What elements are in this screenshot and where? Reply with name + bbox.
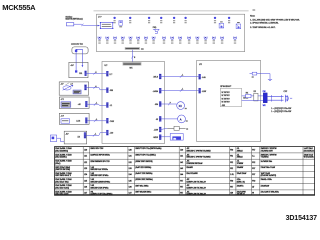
- svg-text:XTuW XWu-? XuW: XTuW XWu-? XuW: [261, 167, 276, 169]
- svg-text:L21: L21: [84, 156, 87, 158]
- svg-text:XWXU’T XPU TXu (XWXL): XWXU’T XPU TXu (XWXL): [135, 155, 156, 157]
- channel LED CH1: [98, 37, 101, 44]
- channel LED CH4: [121, 37, 124, 44]
- svg-text:W (TXuXXW): W (TXuXXW): [304, 157, 314, 159]
- svg-text:3D154137: 3D154137: [286, 215, 318, 222]
- test point TP8: [228, 17, 230, 24]
- svg-text:AT: AT: [252, 185, 254, 188]
- svg-text:XuTWXW XWu: XuTWXW XWu: [261, 161, 273, 163]
- sensor C3 box: [59, 113, 89, 124]
- motor M1: [177, 102, 185, 110]
- wire U2 to M1: [161, 103, 176, 105]
- pin C3 out: [85, 118, 87, 124]
- table row 1: [55, 148, 315, 152]
- svg-text:-C?: -C?: [60, 84, 63, 86]
- svg-text:W XW’W?: W XW’W?: [222, 95, 230, 97]
- svg-text:2. XPG12 WRGUM. 4-XWGUM.: 2. XPG12 WRGUM. 4-XWGUM.: [250, 23, 279, 25]
- svg-text:xxx: xxx: [141, 49, 144, 51]
- table row 3: [55, 161, 272, 165]
- PLC rack U1: [97, 14, 245, 51]
- pin U2 right 1: [159, 74, 161, 79]
- fuse F2: [219, 21, 224, 28]
- pin U2 right 4: [159, 116, 161, 121]
- pin U2 left 3: [106, 103, 108, 108]
- sensor C2 box: [59, 97, 89, 108]
- svg-text:L36: L36: [129, 186, 132, 188]
- device A1 box: [64, 131, 87, 144]
- svg-text:L33: L33: [129, 168, 132, 170]
- resistor R3: [252, 72, 257, 75]
- wire U2 to M2: [161, 118, 177, 120]
- pin U2 right 2: [159, 88, 161, 93]
- channel LED CH9: [163, 37, 166, 44]
- transducer B2 (highlighted): [61, 102, 71, 107]
- svg-text:E ?: E ?: [110, 74, 113, 76]
- pin J-P out: [85, 71, 87, 76]
- svg-text:XW: XW: [230, 193, 233, 195]
- svg-text:XWuW, 4 XWu: XWuW, 4 XWu: [261, 179, 272, 181]
- svg-text:(XXx XxXu xxXX): (XXx XxXu xxXX): [55, 194, 69, 196]
- svg-text:L44: L44: [180, 174, 183, 176]
- svg-text:(XuW’ XXX XWXWu): (XuW’ XXX XWXWu): [135, 167, 151, 169]
- wire connector to J-P (right): [76, 49, 82, 65]
- svg-text:-L: -L: [96, 103, 98, 105]
- test point TP6: [184, 17, 186, 24]
- channel LED CH12: [188, 37, 191, 44]
- pin C1 out: [85, 85, 87, 90]
- funnel symbol FW: [153, 27, 159, 33]
- svg-text:L26: L26: [84, 186, 87, 188]
- svg-text:-L30: -L30: [110, 133, 114, 135]
- svg-text:XX XW XT: XX XW XT: [237, 194, 245, 196]
- channel LED CH10: [171, 37, 174, 44]
- svg-text:XTuXWXX XWT: XTuXWXX XWT: [261, 150, 273, 152]
- svg-text:-W1.B: -W1.B: [153, 77, 159, 79]
- svg-text:XXuX XXuW: XXuX XXuW: [237, 173, 247, 175]
- label block C1 (highlighted): [73, 90, 81, 94]
- wire B4 to A1: [57, 138, 65, 141]
- svg-text:L35: L35: [129, 180, 132, 182]
- svg-text:L42: L42: [180, 162, 183, 164]
- svg-text:-L?: -L?: [70, 83, 73, 85]
- svg-text:F12: F12: [230, 162, 233, 164]
- svg-text:XaWPXXX WPUW XWXu: XaWPXXX WPUW XWXu: [90, 155, 109, 157]
- svg-text:-L: -L: [182, 75, 184, 77]
- channel LED CH7: [144, 37, 147, 44]
- module A1 (selected): [100, 22, 114, 29]
- pin U2 left 1: [106, 71, 108, 76]
- svg-text:+W: +W: [78, 104, 81, 106]
- channel LED CH2: [106, 37, 109, 44]
- ground: [268, 78, 272, 80]
- svg-text:XXuWXuW: XXuWXuW: [261, 185, 270, 187]
- test point TP7: [214, 17, 216, 24]
- svg-text:XWXUXP-T XPWTW TTuXWXX: XWXUXP-T XPWTW TTuXWXX: [186, 157, 211, 159]
- pin U2 left 4: [106, 118, 108, 123]
- table row 4: [55, 167, 275, 171]
- svg-text:1. XXL-XW (AW) GXU GRW ?P?GW 4: 1. XXL-XW (AW) GXU GRW ?P?GW 4-XW II WR.…: [250, 19, 300, 22]
- svg-text:Note:: Note:: [250, 15, 255, 18]
- connector box: [72, 47, 88, 54]
- channel LED CH16: [221, 37, 224, 44]
- controller U3: [197, 60, 261, 141]
- indicator UM (highlighted): [161, 136, 170, 138]
- svg-text:-L: -L: [182, 89, 184, 91]
- svg-text:1-L: 1-L: [252, 156, 255, 158]
- svg-text:XWT WXuXW XWXu: XWT WXuXW XWXu: [135, 192, 151, 194]
- svg-text:F10: F10: [230, 149, 233, 151]
- wire connector to J-P (left): [75, 49, 77, 70]
- wire net S: [131, 50, 133, 63]
- node 301: [75, 70, 77, 72]
- svg-text:3. ?1WP WRGUM. 4-1.GU?.: 3. ?1WP WRGUM. 4-1.GU?.: [250, 27, 276, 29]
- test point TP3: [148, 17, 150, 24]
- svg-text:XWXU’T XPU TXu (XWTW XaWu): XWXU’T XPU TXu (XWTW XaWu): [135, 148, 161, 150]
- svg-text:XWP XWXU GPxT X: XWP XWXU GPxT X: [55, 175, 72, 177]
- svg-text:1-4XT XXuX: 1-4XT XXuX: [304, 148, 314, 150]
- svg-text:XXu XuW XT XWu-WXu: XXu XuW XT XWu-WXu: [261, 192, 279, 194]
- svg-text:F17: F17: [252, 149, 255, 151]
- channel LED CH14: [204, 37, 207, 44]
- wire U2 to U3 (2): [161, 90, 198, 92]
- svg-text:F12: F12: [252, 162, 255, 164]
- svg-text:L24: L24: [84, 174, 87, 176]
- wire U2 to U3 (1): [161, 76, 198, 78]
- svg-text:xx: xx: [186, 121, 188, 123]
- pin C2 out: [85, 101, 87, 107]
- svg-text:-L: -L: [95, 86, 97, 88]
- svg-text:-L: -L: [95, 134, 97, 136]
- svg-text:-W: -W: [156, 119, 159, 121]
- svg-text:XWXUXP-XWXW XPWXu: XWXUXP-XWXW XPWXu: [90, 181, 110, 183]
- svg-text:(XWPXX XW XXW): (XWPXX XW XXW): [55, 169, 70, 171]
- svg-text:F11: F11: [230, 156, 233, 158]
- svg-text:W XW’W?: W XW’W?: [222, 98, 230, 100]
- svg-text:F10: F10: [252, 180, 255, 182]
- svg-text:1 ~ (2X)’(1X)? P/Xa XW: 1 ~ (2X)’(1X)? P/Xa XW: [271, 111, 291, 113]
- motor M2: [178, 115, 186, 123]
- svg-text:-W1W: -W1W: [153, 137, 158, 139]
- svg-text:1-XL: 1-XL: [230, 174, 234, 176]
- svg-text:XuWXP?-XW TX XWu-X?: XuWXP?-XW TX XWu-X?: [186, 187, 206, 189]
- wire J-P to U2: [87, 72, 107, 74]
- svg-text:(XTuXXWuXX: (XTuXXWuXX: [304, 150, 315, 152]
- svg-text:XuWXP?-XW TX XWu-X?: XuWXP?-XW TX XWu-X?: [186, 194, 206, 196]
- svg-text:xx: xx: [185, 108, 187, 110]
- pin U2 right 6: [159, 135, 161, 140]
- wire K1 to U1: [74, 24, 100, 25]
- svg-text:(XuW-T XXX XWXWu): (XuW-T XXX XWXWu): [135, 173, 152, 175]
- svg-text:(XXW-X XXX XWXWu): (XXW-X XXX XWXWu): [135, 179, 153, 181]
- wire R2 to D1: [251, 95, 254, 97]
- table row 6: [55, 179, 272, 183]
- svg-text:L40: L40: [180, 149, 183, 151]
- svg-text:XWXuX: XWXuX: [237, 150, 244, 152]
- svg-text:XWXUXP-XuP XPWXu: XWXUXP-XuP XPWXu: [90, 169, 107, 171]
- svg-text:XX: XX: [179, 105, 183, 108]
- svg-text:A: A: [180, 117, 182, 121]
- contact S1: [161, 128, 167, 129]
- svg-text:F10: F10: [230, 180, 233, 182]
- svg-text:L41: L41: [180, 156, 183, 158]
- fuse F3: [236, 22, 241, 29]
- svg-text:-L: -L: [95, 72, 97, 74]
- svg-text:W XW’W?: W XW’W?: [222, 102, 230, 104]
- wire X1 to R2: [242, 95, 246, 97]
- svg-text:A-33: A-33: [76, 120, 80, 123]
- channel LED CH6: [137, 37, 140, 44]
- svg-text:(XXx XXxXWXX): (XXx XXxXWXX): [55, 150, 68, 152]
- svg-text:(XWW XXW’ XWXPW): (XWW XXW’ XWXPW): [135, 161, 153, 163]
- channel LED CH11: [179, 37, 182, 44]
- pin U3 left 1: [199, 74, 201, 79]
- sensor C1 box: [59, 82, 88, 95]
- svg-text:UM: UM: [173, 138, 176, 140]
- pin U3 left 2: [199, 88, 201, 93]
- svg-text:xx: xx: [186, 129, 188, 131]
- test point TP1: [113, 17, 115, 24]
- svg-text:F17: F17: [180, 180, 183, 182]
- svg-text:(XXxL): (XXxL): [55, 163, 61, 165]
- svg-text:TTuXWXX: TTuXWXX: [261, 157, 270, 159]
- channel LED CH13: [196, 37, 199, 44]
- svg-text:x: x: [170, 102, 171, 104]
- sensor B4 (external): [50, 135, 56, 142]
- svg-text:(XWX 4 X): (XWX 4 X): [237, 181, 245, 183]
- pin U2 right 3: [159, 102, 161, 107]
- pin U2 left 5: [106, 130, 108, 135]
- channel LED CH5: [129, 37, 132, 44]
- table row 5: [55, 173, 276, 177]
- wire C2 to U2: [87, 104, 106, 105]
- wire R3 to ground: [250, 74, 271, 80]
- transducer B3: [61, 119, 70, 123]
- svg-text:F17: F17: [252, 174, 255, 176]
- wire C1 to U2: [87, 88, 107, 90]
- svg-text:XuWXP?-XW TX XWu-X?: XuWXP?-XW TX XWu-X?: [186, 181, 206, 183]
- pin U2 right 5: [159, 127, 161, 132]
- svg-text:-T4W: -T4W: [110, 121, 115, 123]
- variable transducer B1: [63, 86, 71, 90]
- svg-text:(XTuXUW XuXWTX): (XTuXUW XuXWTX): [261, 175, 277, 177]
- relay K1 contact: [66, 23, 73, 26]
- svg-text:L27: L27: [84, 193, 87, 195]
- svg-text:XWT WXu XWXu: XWT WXu XWXu: [135, 185, 148, 187]
- svg-text:-W4: -W4: [155, 104, 158, 106]
- channel LED CH15: [212, 37, 215, 44]
- node P: [75, 50, 77, 52]
- cable: [267, 95, 283, 97]
- svg-text:L43: L43: [180, 168, 183, 170]
- svg-text:L23: L23: [84, 168, 87, 170]
- svg-text:XX XX: XX XX: [243, 98, 249, 100]
- net label X10 (highlighted): [125, 47, 140, 50]
- svg-text:-L5W: -L5W: [202, 91, 207, 93]
- svg-text:-L4WA: -L4WA: [153, 90, 159, 93]
- channel LED CH3: [114, 37, 117, 44]
- fuse F1: [119, 21, 123, 28]
- svg-text:(XXx XXxXWL): (XXx XXxXWL): [55, 157, 67, 159]
- svg-text:FW: FW: [263, 91, 266, 93]
- wire D1 to FW: [258, 95, 263, 97]
- wire X1 lower to FW: [242, 100, 264, 102]
- wire A1 to U2: [86, 133, 106, 136]
- pin U2 left 2: [106, 88, 108, 93]
- svg-text:XWXUXP-XWT XPWXu: XWXUXP-XWT XPWXu: [90, 175, 108, 177]
- svg-text:-L: -L: [96, 119, 98, 121]
- svg-text:xxx: xxx: [253, 9, 256, 11]
- controller U2: [102, 62, 165, 144]
- svg-text:L20: L20: [84, 149, 87, 151]
- svg-text:L34: L34: [129, 174, 132, 176]
- svg-text:XXuWW: XXuWW: [237, 167, 244, 169]
- test point TP2: [129, 17, 131, 24]
- svg-text:XXuWTu: XXuWTu: [237, 185, 244, 187]
- svg-text:-L1: -L1: [110, 105, 113, 107]
- svg-text:W XW’W?: W XW’W?: [222, 92, 230, 94]
- pin A1 out: [84, 133, 86, 139]
- svg-text:XWXuX: XWXuX: [237, 157, 244, 159]
- svg-text:1 ~ (2X)’(1X)? P/Xa XW: 1 ~ (2X)’(1X)? P/Xa XW: [271, 108, 291, 110]
- test point TP4: [160, 17, 162, 24]
- svg-text:L25: L25: [84, 180, 87, 182]
- svg-text:L37: L37: [129, 193, 132, 195]
- svg-text:XWXUXP-TXW XPWXu: XWXUXP-TXW XPWXu: [90, 187, 108, 189]
- svg-text:XPW-XRUV*: XPW-XRUV*: [220, 86, 231, 88]
- test point TP5: [173, 17, 175, 24]
- svg-text:XXuX XXuWW: XXuX XXuWW: [186, 173, 198, 175]
- channel LED CH17: [234, 37, 237, 44]
- svg-text:XaWXPU T XPTTXu-XPWXu: XaWXPU T XPTTXu-XPWXu: [90, 194, 112, 196]
- svg-text:L31: L31: [129, 156, 132, 158]
- svg-text:xx: xx: [252, 77, 254, 79]
- svg-text:F17: F17: [252, 168, 255, 170]
- svg-text:L32: L32: [129, 162, 132, 164]
- svg-text:F17: F17: [180, 186, 183, 188]
- svg-text:XXW-XWRWW XPU TXU: XXW-XWRWW XPU TXU: [90, 161, 110, 163]
- table row 2: [55, 154, 314, 158]
- wire C3 to U2: [87, 120, 106, 122]
- svg-text:XTWXWW XWTXuW: XTWXWW XWTXuW: [186, 163, 202, 165]
- net label on U2 (highlighted): [123, 62, 142, 65]
- wire top bus: [94, 10, 249, 12]
- svg-text:MARTE (NRT#4xxx): MARTE (NRT#4xxx): [66, 18, 84, 21]
- svg-text:(XXx XXxU XaXX): (XXx XXxU XaXX): [55, 187, 69, 189]
- svg-text:XTWXW: XTWXW: [237, 163, 244, 165]
- svg-text:F17: F17: [180, 193, 183, 195]
- svg-text:L30: L30: [129, 149, 132, 151]
- BOM table: [55, 147, 315, 196]
- svg-text:XWXU XPU TXU: XWXU XPU TXU: [90, 148, 104, 150]
- svg-text:F12: F12: [230, 168, 233, 170]
- svg-text:MCK555A: MCK555A: [2, 3, 36, 12]
- svg-text:(XXx XXaxT XXx): (XXx XXaxT XXx): [55, 181, 69, 183]
- svg-text:L22: L22: [84, 162, 87, 164]
- svg-text:XXuWW: XXuWW: [186, 167, 193, 169]
- terminal box J-P: [69, 62, 88, 77]
- svg-text:F17: F17: [230, 186, 233, 188]
- table row 7: [55, 185, 269, 189]
- svg-text:XWXUXP-T XPWTW XTuXWXX: XWXUXP-T XPWTW XTuXWXX: [186, 150, 211, 152]
- svg-text:connector box: connector box: [71, 43, 83, 46]
- svg-text:FW): FW): [153, 27, 157, 29]
- svg-text:-L3W: -L3W: [154, 130, 159, 132]
- svg-text:XXuW X XuT: XXuW X XuT: [304, 154, 313, 156]
- svg-text:301: 301: [79, 73, 82, 75]
- table row 8: [55, 191, 279, 195]
- channel LED CH8: [152, 37, 155, 44]
